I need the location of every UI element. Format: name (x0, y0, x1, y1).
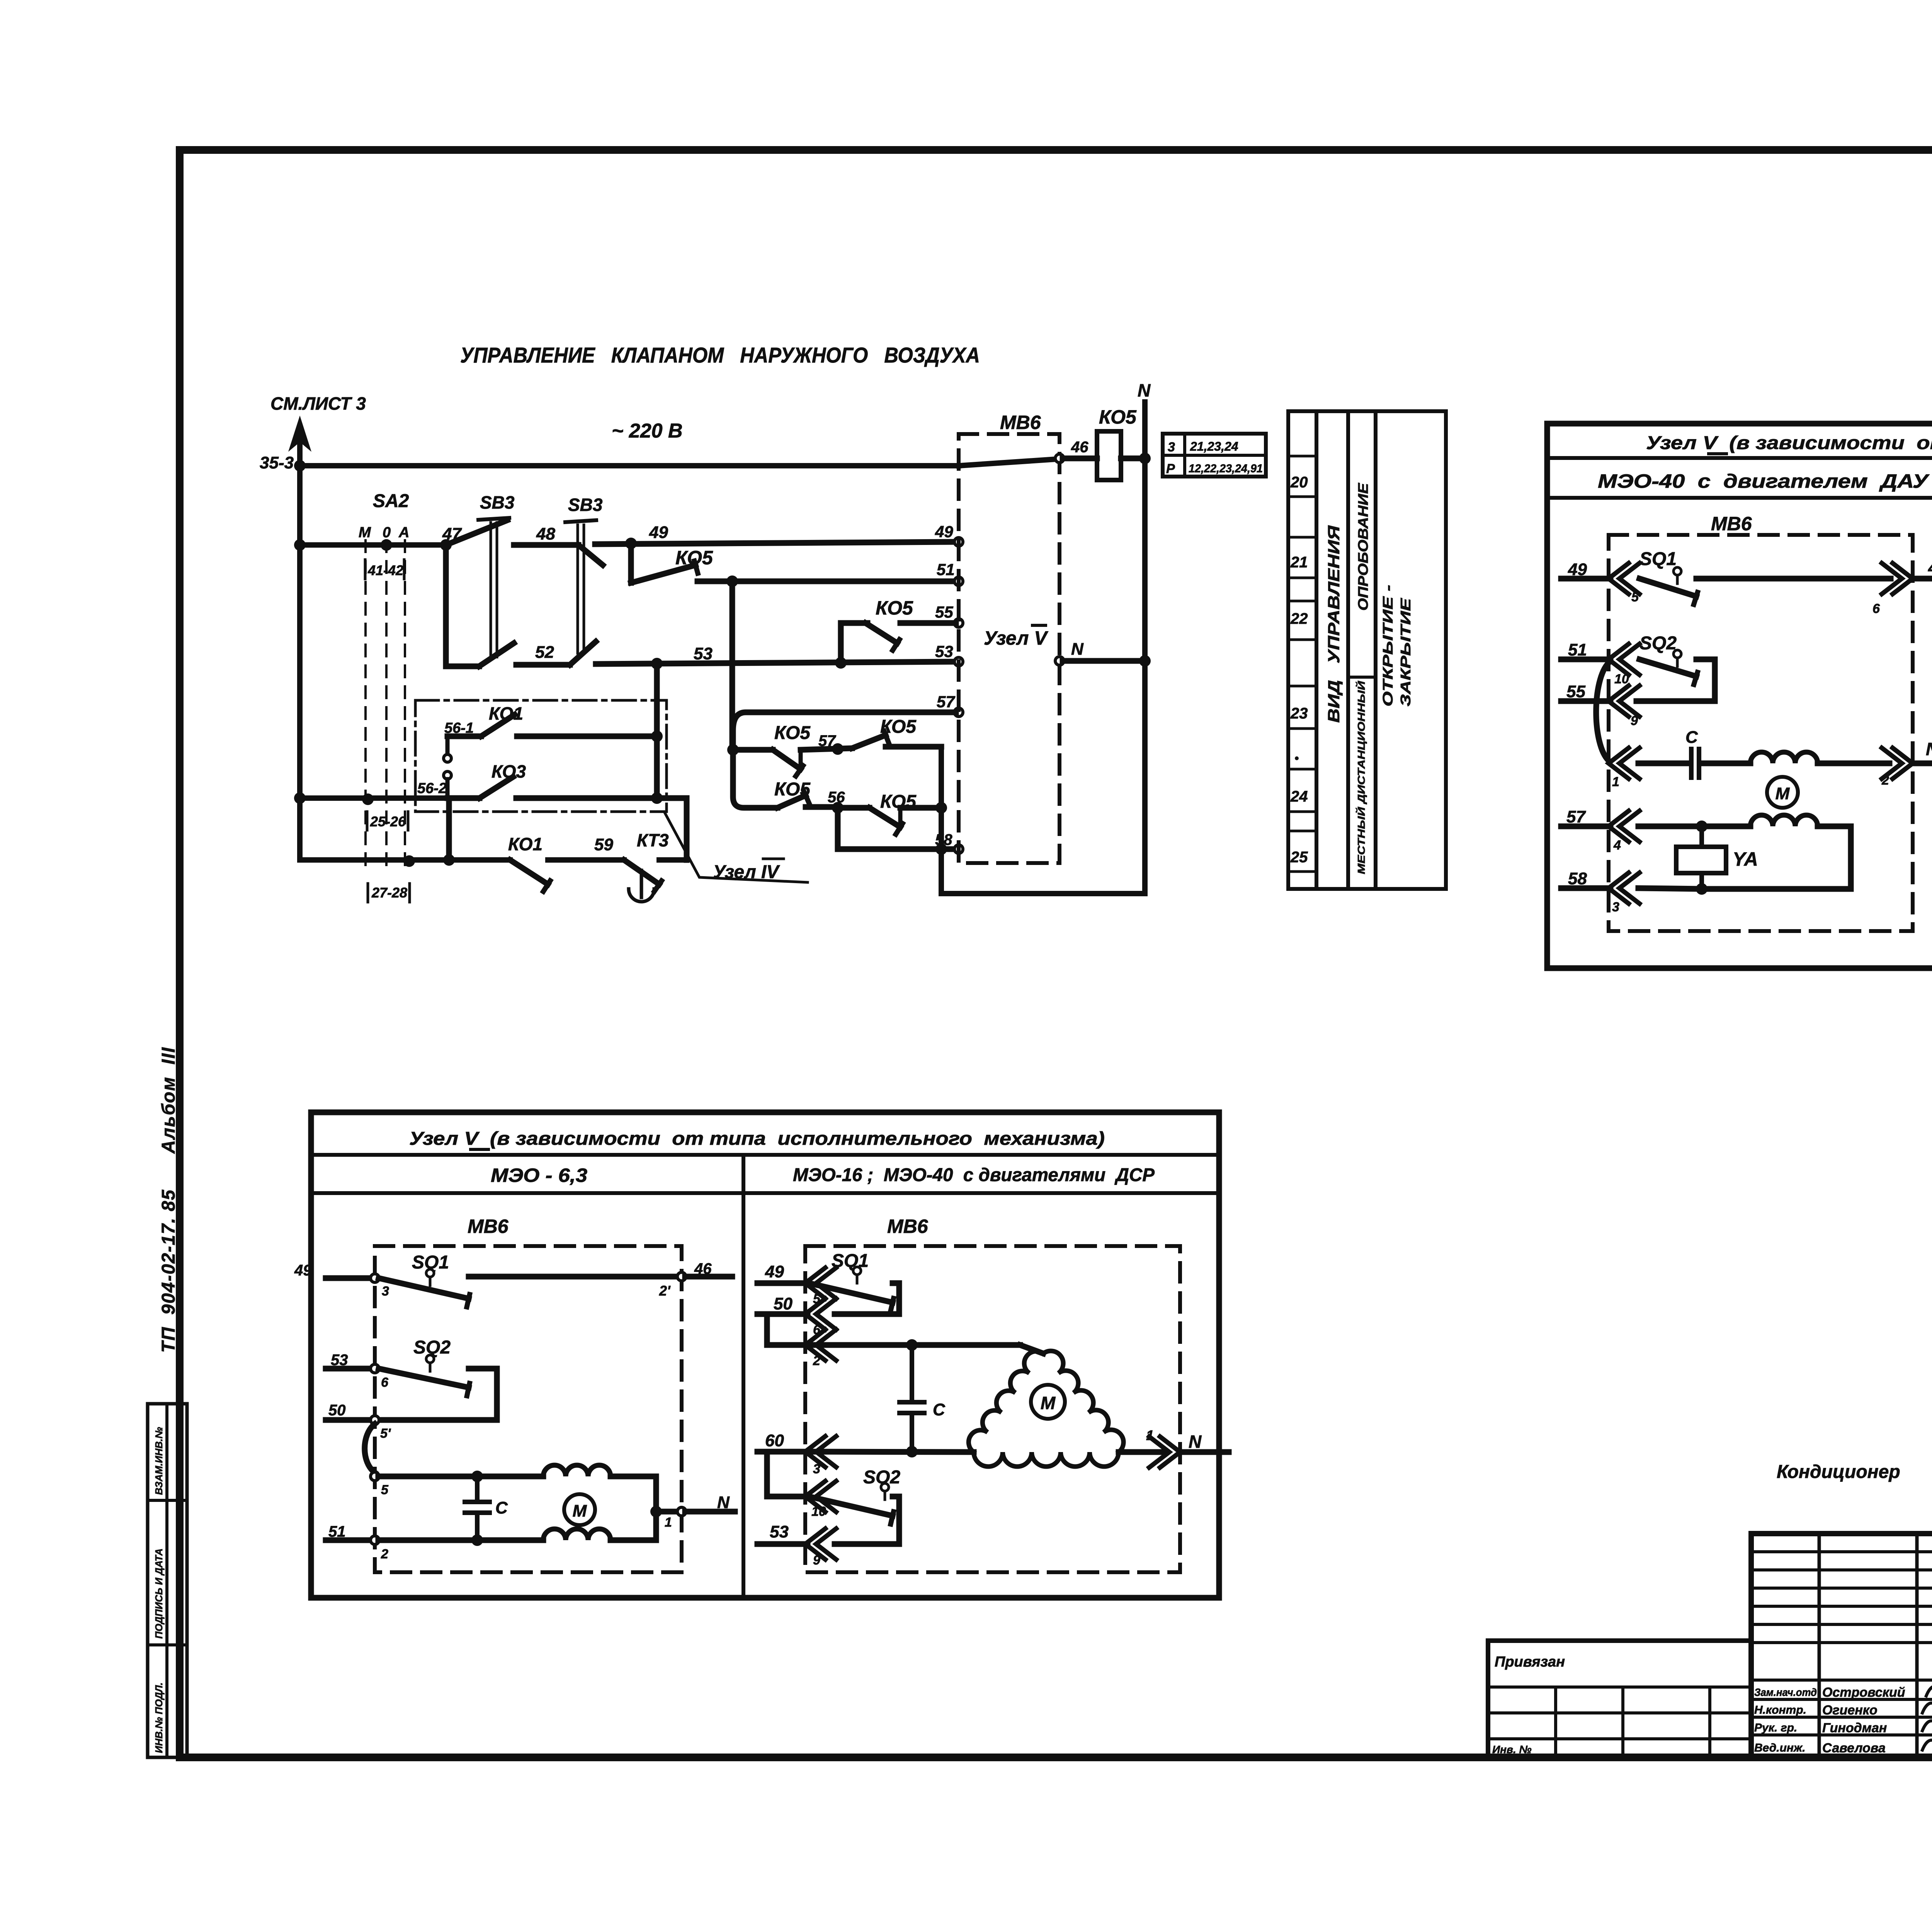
svg-text:3: 3 (813, 1462, 820, 1476)
svg-text:Рук. гр.: Рук. гр. (1754, 1721, 1797, 1734)
SA2 contact 27-28 dot (403, 855, 415, 867)
wire 49-46 (1696, 576, 1891, 582)
svg-text:ОПРОБОВАНИЕ: ОПРОБОВАНИЕ (1355, 483, 1371, 611)
riser D1 down to rowB (733, 750, 777, 808)
SQ1 pin (1673, 567, 1681, 575)
SQ2 blade (1639, 659, 1696, 676)
svg-text:N: N (1071, 640, 1084, 659)
wire 48 segment (514, 542, 578, 548)
inductor upper meo63 (543, 1465, 611, 1476)
SQ2 loop meo63 (378, 1369, 497, 1420)
wire rowB right (838, 805, 869, 811)
svg-text:ВЗАМ.ИНВ.№: ВЗАМ.ИНВ.№ (153, 1427, 165, 1495)
svg-text:57: 57 (937, 693, 955, 711)
svg-text:КО5: КО5 (1099, 406, 1137, 428)
MV6 terminal 57 (954, 708, 963, 717)
svg-text:Кондиционер: Кондиционер (1777, 1462, 1900, 1482)
svg-text:КО5: КО5 (774, 723, 811, 743)
svg-text:SQ1: SQ1 (832, 1251, 869, 1271)
svg-text:Вед.инж.: Вед.инж. (1754, 1742, 1805, 1754)
wire stub 51 (1561, 657, 1611, 662)
motor triangle meo16 (969, 1351, 1043, 1452)
svg-text:SQ2: SQ2 (1639, 633, 1677, 654)
vid table column mestny/oprobovanie (1348, 411, 1376, 889)
svg-text:ИНВ.№ ПОДЛ.: ИНВ.№ ПОДЛ. (153, 1682, 165, 1753)
wire bottom row right (659, 857, 687, 863)
svg-text:9: 9 (1631, 713, 1638, 728)
wire row2 to MV6 terminal 49 (595, 542, 956, 544)
svg-text:57: 57 (818, 732, 836, 749)
terminal 2 meo63 (371, 1536, 379, 1544)
svg-text:46: 46 (1928, 558, 1932, 577)
svg-text:МВ6: МВ6 (1711, 513, 1752, 535)
svg-text:Р: Р (1166, 461, 1175, 476)
wire stub 49 meo16 (757, 1280, 808, 1286)
svg-text:3: 3 (382, 1284, 389, 1299)
svg-text:Гинодман: Гинодман (1822, 1721, 1887, 1735)
wire to N meo63 (656, 1509, 678, 1515)
margin text TP 904-02-17.85 Albom III (158, 1047, 179, 1353)
jog 50 to 2 (767, 1314, 808, 1345)
contact KO5 lower-right blade (869, 808, 900, 827)
svg-text:~ 220 В: ~ 220 В (612, 420, 683, 442)
wire lower row meo63 (378, 1537, 543, 1543)
svg-text:5: 5 (381, 1483, 389, 1497)
contact KO5 row51 blade (631, 565, 696, 583)
svg-text:МЭО-16 ; МЭО-40 с двигателям: МЭО-16 ; МЭО-40 с двигателями ДСР (793, 1165, 1155, 1185)
wire N bottom return (941, 891, 1145, 896)
bus arrow up (291, 419, 309, 448)
node D1 (727, 744, 739, 756)
page frame (180, 150, 1932, 1757)
connector chevron 57 (1609, 811, 1629, 842)
SB3 no.2 contact blade (578, 545, 603, 565)
svg-text:5': 5' (380, 1426, 391, 1441)
contact KO5 lower-left blade (777, 795, 806, 808)
svg-text:56: 56 (828, 789, 845, 806)
node 49 (625, 538, 637, 549)
connector chevron N right (1893, 748, 1913, 779)
svg-text:МВ6: МВ6 (887, 1216, 929, 1237)
wire upper to vert meo63 (611, 1474, 656, 1479)
node KO1 end (651, 730, 663, 742)
wire 46 stub meo63 (685, 1274, 732, 1280)
wire coil to N chevron (1818, 761, 1889, 766)
svg-text:СМ.ЛИСТ 3: СМ.ЛИСТ 3 (270, 393, 366, 414)
svg-text:49: 49 (294, 1262, 312, 1279)
svg-text:51: 51 (937, 560, 955, 579)
SB3 no.2 stem (577, 525, 579, 653)
riser R1 row53-KO1-KO3 (654, 664, 660, 798)
svg-text:53: 53 (935, 642, 953, 661)
contact KO5 row55 blade (866, 623, 897, 643)
MV6 terminal 51 (954, 577, 963, 586)
SB3 no.1 contact blade (446, 520, 507, 545)
svg-text:55: 55 (935, 603, 953, 621)
vid table column numbers (1288, 411, 1316, 889)
MV6 terminal 53 (954, 657, 963, 666)
ref table (1163, 434, 1266, 477)
terminal 5 meo63 (371, 1472, 379, 1481)
terminal 3 meo63 (371, 1274, 379, 1282)
terminal N meo63 (677, 1507, 686, 1516)
inductor upper winding MEO40 (1750, 752, 1818, 763)
wire 52 segment (516, 662, 570, 668)
node 51-D1riser (726, 575, 738, 587)
node rowB-vert (935, 802, 947, 814)
svg-text:Узел V: Узел V (984, 627, 1048, 649)
svg-text:53: 53 (331, 1352, 348, 1369)
title block sig rows (1751, 1679, 1932, 1682)
title block columns (1818, 1534, 1821, 1757)
wire stub 55 (1561, 698, 1611, 704)
svg-text:2: 2 (1881, 773, 1889, 788)
SQ2 blade meo16 (809, 1496, 893, 1516)
svg-text:22: 22 (1290, 610, 1308, 627)
SA2 contact 41-42 dot (381, 539, 392, 551)
riser bottom to KO3 row (684, 798, 690, 860)
SQ2 pin (1673, 650, 1681, 658)
wire 59 segment (548, 857, 624, 863)
big vertical to N return (939, 747, 944, 894)
SQ1 blade meo16 (809, 1283, 893, 1302)
svg-text:48: 48 (536, 524, 555, 543)
svg-text:М: М (1041, 1393, 1056, 1413)
riser node49 down (628, 543, 634, 583)
svg-text:Савелова: Савелова (1822, 1741, 1886, 1755)
svg-text:2: 2 (381, 1547, 388, 1561)
wire C to coil (1702, 761, 1750, 766)
wire KO1 row east (517, 734, 657, 739)
SQ1 blade (1639, 579, 1696, 596)
svg-text:А: А (398, 524, 409, 541)
margin mini table (148, 1404, 187, 1757)
terminal 2prime (677, 1272, 686, 1281)
svg-text:10: 10 (811, 1504, 826, 1519)
svg-text:МВ6: МВ6 (468, 1216, 509, 1237)
inductor lower meo63 (543, 1529, 611, 1540)
wire top bus inside MV6 (959, 459, 1056, 466)
bracket 5prime to 5 (365, 1424, 375, 1473)
svg-text:С: С (1685, 728, 1698, 747)
node cap top meo16 (906, 1339, 918, 1351)
riser KO3row to bottom (446, 798, 452, 860)
chevron 5 meo16 (805, 1268, 825, 1299)
wire stub 49 meo63 (326, 1275, 371, 1281)
uzel IV chain box (415, 700, 667, 812)
svg-text:1: 1 (1612, 775, 1619, 789)
relay coil KO5 (1097, 431, 1121, 480)
svg-text:0: 0 (383, 524, 391, 541)
wire contact 52 row (446, 664, 479, 669)
chevron 10 meo16 (805, 1481, 825, 1512)
brake coil YA (1699, 826, 1704, 847)
node 56 (832, 802, 844, 814)
motor loop right side (1705, 826, 1851, 889)
svg-text:ВИД УПРАВЛЕНИЯ: ВИД УПРАВЛЕНИЯ (1325, 525, 1343, 723)
svg-text:М: М (1776, 784, 1790, 803)
wire to apex meo16 (1020, 1345, 1043, 1353)
node 57 mid (832, 743, 844, 755)
svg-text:SB3: SB3 (568, 495, 603, 515)
svg-text:N: N (1138, 380, 1151, 400)
svg-text:2': 2' (659, 1283, 671, 1299)
svg-text:ОТКРЫТИЕ -: ОТКРЫТИЕ - (1380, 585, 1396, 707)
wire bottom row meo16 (809, 1452, 974, 1452)
node bottom-1162 (443, 854, 455, 866)
contact KO1 56-1 wire (447, 734, 481, 739)
margin label Vzam inv (153, 1427, 165, 1495)
wire 58 row (1638, 888, 1705, 889)
svg-text:50: 50 (774, 1294, 793, 1313)
svg-text:58: 58 (935, 831, 952, 848)
svg-text:53: 53 (770, 1522, 789, 1541)
contact KO1 bottom blade (510, 860, 548, 884)
node rowC-vert (935, 843, 947, 855)
wire KO3 row east (516, 795, 687, 801)
node 47 (440, 539, 452, 551)
svg-text:60: 60 (765, 1431, 784, 1450)
svg-text:МЭО-40 с двигателем ДАУ: МЭО-40 с двигателем ДАУ (1598, 470, 1930, 492)
wire N mid (1063, 658, 1145, 664)
title block thin rows (1751, 1550, 1932, 1553)
node YA bottom (1696, 883, 1708, 895)
svg-text:N: N (1189, 1432, 1202, 1452)
node 53-R1 (651, 658, 663, 669)
capacitor C MEO40 (1689, 749, 1694, 778)
svg-text:SA2: SA2 (373, 491, 409, 511)
svg-text:6: 6 (1872, 601, 1880, 616)
wire stub 53 meo16 (757, 1541, 808, 1547)
title block outer (1751, 1534, 1932, 1757)
SQ2 pin meo63 (426, 1355, 434, 1363)
svg-text:Н.контр.: Н.контр. (1754, 1704, 1806, 1716)
connector chevron 51 (1609, 644, 1629, 675)
svg-text:ПОДПИСЬ И ДАТА: ПОДПИСЬ И ДАТА (153, 1548, 165, 1639)
svg-text:МЭО - 6,3: МЭО - 6,3 (491, 1165, 587, 1186)
svg-text:50: 50 (328, 1402, 346, 1419)
svg-text:49: 49 (765, 1262, 784, 1281)
contact KO3 56-2 wire (447, 795, 480, 801)
svg-text:ЗАКРЫТИЕ: ЗАКРЫТИЕ (1398, 598, 1413, 707)
contact KT3 blade (624, 860, 659, 884)
SQ2 loop meo16 (835, 1496, 899, 1544)
wire rowA right (886, 744, 941, 750)
svg-text:3: 3 (1168, 440, 1175, 455)
chevron 6 meo16 (805, 1299, 825, 1330)
svg-text:59: 59 (594, 835, 613, 854)
svg-text:С: С (933, 1400, 946, 1419)
motor M meo16 (1031, 1385, 1065, 1419)
wire 46 stub (1913, 576, 1932, 582)
wire D1 east (733, 747, 773, 753)
svg-text:SB3: SB3 (480, 492, 515, 512)
riser 51 to D1 (730, 581, 735, 750)
connector chevron 58 (1609, 873, 1629, 904)
wire to 2prime (469, 1274, 678, 1280)
MV6 right terminal 46 (1055, 454, 1064, 463)
svg-text:53: 53 (694, 644, 713, 663)
SQ2 pin meo16 (881, 1483, 889, 1491)
svg-text:49: 49 (649, 523, 668, 542)
wire stub 53 meo63 (326, 1366, 371, 1372)
motor M meo63 (564, 1494, 595, 1525)
svg-text:41-42: 41-42 (367, 562, 403, 578)
MV6 dashed box MEO63 (375, 1246, 682, 1572)
MV6 dashed box (959, 434, 1060, 863)
svg-text:51: 51 (1568, 640, 1587, 659)
node bus-top (294, 460, 306, 472)
node N-KO5 (1139, 453, 1151, 464)
connector chevron 1 (1609, 748, 1629, 779)
SQ2 blade meo63 (379, 1369, 469, 1388)
svg-text:С: С (495, 1498, 508, 1517)
connector 56 lower circle (444, 771, 451, 779)
left bus wire (297, 428, 303, 860)
wire motor row meo63 (378, 1474, 543, 1479)
wire row C 58 (838, 846, 956, 852)
svg-text:М: М (359, 524, 371, 541)
wire N stub meo16 (1180, 1449, 1229, 1455)
svg-text:55: 55 (1566, 682, 1585, 701)
svg-text:УПРАВЛЕНИЕ КЛАПАНОМ НАРУЖН: УПРАВЛЕНИЕ КЛАПАНОМ НАРУЖНОГО ВОЗДУХА (460, 343, 980, 367)
SA2 dashed line 0 (385, 540, 388, 867)
wire stub 50 meo16 (757, 1311, 808, 1317)
wire N stub (1913, 761, 1932, 766)
capacitor C meo63 (475, 1476, 480, 1500)
vertical winding join meo63 (653, 1476, 659, 1540)
svg-text:25: 25 (1290, 849, 1308, 866)
connector 56 upper circle (446, 736, 450, 754)
svg-text:2: 2 (813, 1353, 820, 1368)
vid table column vid upravleniya (1316, 411, 1348, 889)
SA2 dashed line A (404, 540, 406, 867)
wire row KO3 from bus (300, 795, 447, 801)
terminal 6 meo63 (371, 1364, 379, 1373)
svg-text:27-28: 27-28 (371, 885, 407, 901)
contact KO5 upper-right blade (852, 735, 886, 748)
svg-text:Узел V (в зависимости от тип: Узел V (в зависимости от типа исполнител… (1646, 433, 1932, 453)
wire row 53 (596, 662, 956, 664)
wire row 51 (697, 579, 956, 584)
SA2 contact 25-26 dot (362, 793, 374, 805)
svg-text:5: 5 (1631, 590, 1639, 604)
svg-text:35-3: 35-3 (260, 453, 294, 472)
wire top bus 220V (300, 463, 959, 468)
svg-text:21: 21 (1290, 554, 1308, 571)
wire N stub meo63 (685, 1509, 735, 1515)
node KO3 end (651, 792, 663, 804)
MV6 terminal 55 (954, 619, 963, 627)
uzel V bottom table frame (311, 1112, 1219, 1598)
svg-text:46: 46 (694, 1260, 712, 1277)
wire C row left (1638, 761, 1688, 766)
svg-text:49: 49 (935, 523, 953, 541)
wire bottom row (300, 857, 510, 863)
vid table column otkrytie (1376, 411, 1446, 889)
svg-text:Привязан: Привязан (1495, 1654, 1565, 1670)
svg-text:Зам.нач.отд: Зам.нач.отд (1754, 1686, 1817, 1698)
svg-text:57: 57 (1566, 807, 1586, 826)
node YA top (1696, 821, 1708, 832)
wire 55 left segment (841, 620, 867, 626)
svg-text:51: 51 (328, 1523, 346, 1540)
svg-text:56-2: 56-2 (417, 780, 447, 797)
svg-text:КО1: КО1 (508, 834, 543, 854)
N riser wire (1142, 402, 1148, 894)
wire stub 57 (1561, 824, 1611, 829)
svg-text:46: 46 (1071, 439, 1088, 456)
svg-text:3: 3 (1612, 900, 1619, 914)
svg-text:КО5: КО5 (876, 597, 913, 619)
node 53-55riser (835, 657, 847, 669)
wire stub 51 meo63 (326, 1537, 371, 1543)
node bus row2 (294, 539, 306, 551)
svg-text:1: 1 (665, 1515, 672, 1530)
svg-text:49: 49 (1568, 560, 1587, 579)
bracket 51 to C row (1596, 663, 1609, 761)
wire rowB mid (806, 804, 838, 810)
inductor lower winding MEO40 (1750, 815, 1818, 826)
chevron 3 meo16 (805, 1436, 825, 1467)
wire KO5 to N riser (1121, 456, 1145, 461)
MV6 terminal 49 (954, 538, 963, 546)
chevron 9 meo16 (805, 1529, 825, 1559)
node cap bottom meo63 (471, 1534, 483, 1546)
wire power row meo16 (809, 1342, 1020, 1348)
chevron N right meo16 (1160, 1437, 1180, 1468)
svg-text:24: 24 (1290, 788, 1308, 805)
SQ1 loop meo16 (835, 1283, 899, 1314)
wire stub 50 meo63 (326, 1417, 371, 1423)
SQ1 pin meo16 (853, 1267, 861, 1275)
svg-text:9: 9 (813, 1553, 820, 1568)
svg-text:МВ6: МВ6 (1000, 412, 1041, 433)
wire bottom right meo16 (1119, 1449, 1165, 1455)
riser 55 to row53 (838, 623, 844, 663)
wire 46 (1063, 456, 1097, 461)
MV6 right terminal N (1055, 657, 1064, 665)
MV6 terminal 58 (954, 845, 963, 853)
SB3 no.1 stem (490, 523, 492, 657)
svg-text:М: М (573, 1502, 587, 1520)
svg-text:52: 52 (535, 643, 554, 662)
svg-text:КО5: КО5 (675, 547, 713, 569)
margin label Inv N podl (153, 1682, 165, 1753)
svg-text:Узел IV: Узел IV (713, 862, 780, 882)
contact KO1 56-1 blade (481, 715, 515, 736)
contact KO5 upper-left blade (773, 750, 801, 769)
motor M MEO40 (1767, 777, 1798, 808)
svg-text:N: N (717, 1493, 730, 1512)
svg-text:N: N (1926, 739, 1932, 759)
connector chevron 46 right (1893, 563, 1913, 594)
node cap bottom meo16 (906, 1446, 918, 1457)
svg-text:12,22,23,24,91: 12,22,23,24,91 (1189, 462, 1263, 475)
riser 56 down (835, 808, 841, 849)
svg-text:25-26: 25-26 (370, 814, 406, 829)
svg-text:Островский: Островский (1822, 1685, 1905, 1700)
svg-text:МЕСТНЫЙ ДИСТАНЦИОННЫЙ: МЕСТНЫЙ ДИСТАНЦИОННЫЙ (1355, 680, 1367, 874)
node 1 meo63 (650, 1506, 662, 1517)
node bus row KO3 (294, 792, 306, 804)
svg-text:КО1: КО1 (489, 703, 523, 724)
terminal 5prime meo63 (371, 1416, 379, 1424)
svg-text:YA: YA (1733, 848, 1758, 870)
svg-text:58: 58 (1568, 869, 1587, 888)
node N-mid (1139, 655, 1151, 667)
KT3 time-delay symbol (640, 870, 643, 897)
